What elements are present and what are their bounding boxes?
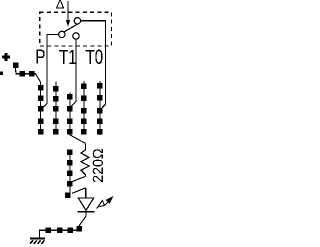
resistor value label 220Ω	[93, 149, 103, 182]
ground	[30, 239, 45, 244]
wire resistor bottom to net wire 6	[72, 176, 86, 181]
wire T0 pin run	[81, 21, 106, 110]
actuation label Δ	[56, 0, 64, 9]
wire T1 riser	[70, 39, 76, 107]
contact C (throw T0)	[74, 18, 80, 24]
switch lever	[64, 24, 77, 31]
LED D1	[78, 188, 95, 212]
net wire 2 (beaded, dead end)	[53, 81, 59, 134]
net wire 3 from T1 (beaded)	[67, 93, 73, 135]
net wire 4 (beaded, dead end)	[81, 81, 87, 135]
wire net3 end to resistor top	[70, 135, 86, 144]
contact B (throw T1)	[73, 33, 79, 39]
LED emission arrow 1 (open head)	[97, 200, 105, 208]
contact A (pole P)	[59, 31, 65, 37]
wire P riser diagonal to net	[41, 104, 48, 111]
resistor R1 220Ω	[81, 143, 89, 176]
actuation arrow	[66, 1, 70, 26]
switch enclosure dashed box	[40, 12, 112, 46]
wire net6 to LED anode	[72, 188, 86, 194]
wire from + supply (beaded)	[13, 62, 44, 134]
label T0	[86, 50, 103, 64]
battery + terminal	[2, 53, 10, 61]
wire LED cathode to ground run	[39, 212, 86, 239]
battery - terminal stub	[0, 72, 3, 75]
wire P pin to contact A	[47, 34, 59, 103]
net wire 6 (beaded)	[65, 150, 73, 199]
beads on ground run wire	[46, 226, 83, 233]
LED emission arrow 2	[105, 196, 114, 206]
label P	[37, 50, 45, 64]
net wire 5 from T0 (beaded)	[97, 81, 103, 135]
label T1	[59, 50, 76, 64]
